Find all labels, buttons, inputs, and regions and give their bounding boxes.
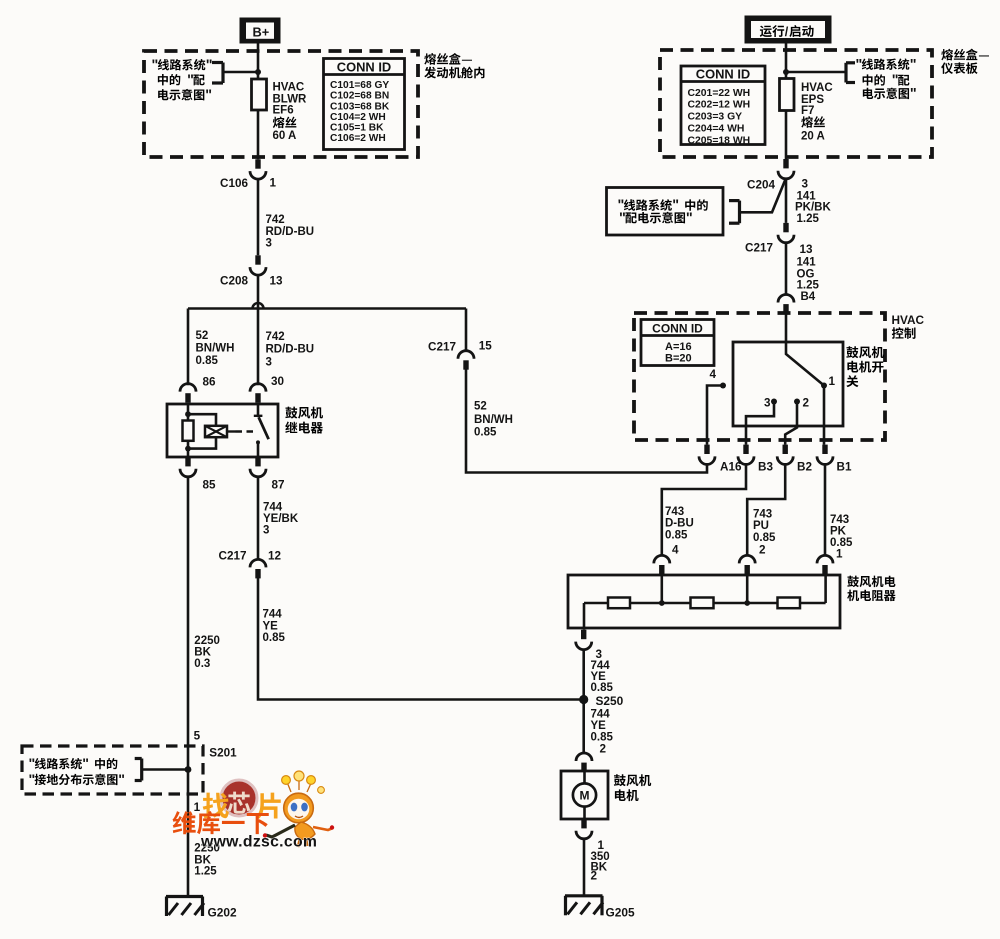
resistor tap pin 1 wire [824,575,827,603]
note text ground distribution [29,756,126,788]
svg-text:G202: G202 [208,905,237,919]
svg-text:CONN ID: CONN ID [337,60,391,75]
relay coil parallel branch lower [188,437,216,448]
svg-text:B3: B3 [758,460,773,473]
svg-text:BK: BK [194,647,211,659]
svg-text:": " [206,57,213,73]
svg-text:C217: C217 [428,340,456,353]
motor symbol M [573,783,596,806]
switch pin 4 wire to A16 [707,386,723,445]
svg-text:20 A: 20 A [801,130,825,142]
pin label 2 switch [803,396,810,409]
svg-text:B4: B4 [801,291,816,303]
svg-text:": " [118,772,125,788]
svg-text:3: 3 [263,524,269,536]
svg-text:C103=68 BK: C103=68 BK [330,101,390,112]
connector C106 [220,159,276,190]
wire label 744 YE 0.85 mid [263,609,286,645]
connector C217 pin 15 [428,339,492,369]
pin label 2 resistor [759,544,766,557]
wire 2250 BK 0.3 [187,476,190,897]
connector relay pin 87 [250,457,266,477]
svg-text:CONN ID: CONN ID [696,67,750,82]
resistor tap node 2 [744,600,750,606]
svg-text:EF6: EF6 [273,105,294,117]
svg-text:742: 742 [266,331,285,343]
svg-text:1: 1 [194,801,201,814]
wire 742 RD/D-BU 3 lower [257,309,260,386]
switch pin 2 node [794,399,800,405]
fusebox instrument panel dashed box [660,50,932,157]
svg-text:141: 141 [797,190,817,202]
connector B3 [738,445,773,474]
relay coil parallel branch upper [188,414,216,426]
svg-text:0.85: 0.85 [665,529,688,541]
CONN ID table left [324,59,405,150]
pin label 4 switch [710,368,717,381]
svg-text:52: 52 [196,330,209,342]
svg-text:744: 744 [591,708,611,720]
svg-text:HVAC: HVAC [273,82,305,94]
svg-text:C106: C106 [220,177,248,190]
relay contact blade [259,417,269,439]
svg-text:743: 743 [830,514,849,526]
switch pin 3 wire to B3 [746,402,774,445]
wire fuse to C106 [257,110,260,159]
wire label 742 RD/D-BU 3 upper [266,214,315,250]
pin label 30 [271,375,285,388]
note text power distribution right [856,57,917,102]
wire label 743 PU 0.85 [753,508,776,543]
wire RUN/START to fuse [785,44,788,80]
switch pin 3 node [771,399,777,405]
svg-text:C205=18 WH: C205=18 WH [688,135,751,146]
switch pin 4 node [720,383,726,389]
svg-text:3: 3 [266,357,272,369]
svg-text:13: 13 [800,243,814,256]
pin label 1 switch [829,375,836,388]
svg-text:141: 141 [797,256,817,268]
svg-text:1: 1 [836,548,843,561]
pin label 5 [194,729,201,742]
relay coil lower wire [187,441,190,457]
resistor element R3 [778,598,801,609]
relay label [285,407,323,434]
wire B+ to fuse [257,44,260,80]
svg-text:1: 1 [829,375,836,388]
svg-text:13: 13 [270,275,284,288]
svg-text:B+: B+ [253,24,270,39]
svg-text:": " [205,87,212,103]
wire label 743 D-BU 0.85 [665,506,694,541]
svg-text:M: M [580,789,590,803]
svg-text:B1: B1 [837,460,852,473]
svg-text:2: 2 [803,396,810,409]
wire 141 OG 1.25 B4 [785,242,788,295]
relay node upper [185,411,191,417]
svg-text:0.85: 0.85 [753,532,776,544]
relay contact tick [254,415,263,417]
wire 744 YE/BK 3 [257,476,260,560]
pin label 87 [272,478,285,491]
wire label 744 YE 0.85 2 lower [591,708,614,755]
resistor tap pin 4 wire [660,575,663,603]
power terminal B+ [240,18,281,44]
svg-text:86: 86 [203,375,217,388]
svg-text:0.85: 0.85 [591,682,614,694]
svg-text:C201=22 WH: C201=22 WH [688,88,751,99]
wire 141 PK/BK 1.25 [785,178,788,223]
connector resistor pin 2 [739,555,755,574]
relay coil feed wire [187,404,190,421]
connector C217 pin 13 [745,223,813,256]
svg-text:BN/WH: BN/WH [196,343,235,355]
svg-text:/: / [785,25,789,39]
svg-text:C104=2 WH: C104=2 WH [330,112,386,123]
svg-text:4: 4 [672,544,679,557]
svg-text:0.3: 0.3 [194,658,210,670]
fuse F7 HVAC EPS 20A [780,79,795,111]
svg-text:1.25: 1.25 [194,866,217,878]
svg-text:": " [82,756,89,772]
wire to right note bracket [786,71,846,74]
relay coil to contact link lead [227,430,236,432]
svg-text:YE/BK: YE/BK [263,513,299,525]
connector A16 [699,445,742,474]
power terminal RUN/START [745,16,832,44]
svg-text:PK: PK [830,526,847,538]
svg-text:743: 743 [753,508,772,520]
svg-text:12: 12 [268,550,282,563]
pin label 1 resistor [836,548,843,561]
svg-text:C202=12 WH: C202=12 WH [688,100,751,111]
wire C217-15 down across to A16 [466,369,707,473]
splice node S201 [185,766,192,773]
pin label 1 left [194,801,201,814]
svg-text:C102=68 BN: C102=68 BN [330,91,389,102]
splice label S201 [209,746,237,759]
svg-text:2250: 2250 [194,635,220,647]
svg-text:744: 744 [263,609,283,621]
wire branch 52 BN/WH left [187,309,190,386]
ground G202 [166,897,237,920]
note box power distribution C204 [607,188,724,236]
connector motor pin 1 [576,819,592,839]
HVAC control dashed box [634,313,885,440]
bus junction horizontal wire [188,307,466,310]
svg-text:PK/BK: PK/BK [795,202,831,214]
connector B2 [777,445,812,474]
svg-text:www.dzsc.com: www.dzsc.com [200,834,317,851]
wire label 141 OG 1.25 B4 [797,256,820,303]
svg-text:C217: C217 [745,242,773,255]
note text power distribution left [152,57,213,103]
connector C208 [220,255,283,287]
blower motor resistor box [568,575,840,628]
svg-text:B2: B2 [797,460,812,473]
svg-text:0.85: 0.85 [474,426,497,438]
splice node S250 [579,695,588,704]
resistor element R1 [608,598,630,609]
svg-text:15: 15 [479,339,493,352]
motor armature wire bottom [583,807,586,819]
svg-text:0.85: 0.85 [263,632,286,644]
svg-text:": " [910,86,917,102]
svg-text:": " [672,198,679,214]
svg-text:B=20: B=20 [665,352,692,364]
svg-text:4: 4 [710,368,717,381]
connector motor pin 2 [576,753,592,772]
svg-text:PU: PU [753,520,769,532]
connector relay pin 86 [180,384,196,403]
motor label [614,774,651,801]
wire label 1 350 BK 2 [591,839,610,883]
svg-text:": " [686,210,693,226]
wire label 52 BN/WH 0.85 left [196,330,235,367]
svg-text:3: 3 [802,177,809,190]
svg-text:G205: G205 [606,906,635,920]
relay suppression resistor [183,421,194,441]
CONN ID table small [641,320,714,366]
svg-text:2: 2 [759,544,766,557]
svg-text:60 A: 60 A [273,130,297,142]
resistor internal bus [584,602,826,605]
CONN ID table right [681,66,765,146]
svg-text:744: 744 [263,502,283,514]
connector relay pin 30 [250,384,266,403]
fuse label HVAC EPS F7 20A [801,82,833,142]
svg-text:3: 3 [764,396,771,409]
pin label 85 [203,478,217,491]
wire 743 D-BU 0.85 [662,464,746,557]
blower relay box [167,404,278,457]
relay node lower [185,446,191,452]
motor armature wire top [583,770,586,784]
wire label 744 YE/BK 3 [263,502,299,537]
svg-text:C204: C204 [747,179,775,192]
wire 744 YE 0.85 to S250 [258,577,580,699]
switch pin 1 wire to B1 [823,386,826,445]
wire 743 PU 0.85 [747,464,785,557]
svg-text:C101=68 GY: C101=68 GY [330,80,389,91]
svg-text:A=16: A=16 [665,341,692,353]
svg-text:1.25: 1.25 [797,280,820,292]
wire C208 to bus junction [257,274,260,308]
svg-text:": " [856,57,863,73]
svg-text:": " [892,73,899,89]
switch pin 1 node [821,383,827,389]
relay coil winding symbol [205,426,227,437]
resistor output drop [583,603,586,630]
wire 742 RD/D-BU 3 upper [257,178,260,255]
wire resistor to S250 [582,649,585,754]
svg-text:RD/D-BU: RD/D-BU [266,343,315,355]
HVAC control label [892,313,925,339]
wire label 742 RD/D-BU 3 lower [266,331,315,368]
ground G205 [565,896,635,920]
svg-text:HVAC: HVAC [801,82,833,94]
svg-text:": " [619,210,626,226]
wire label 3 744 YE 0.85 [591,648,614,694]
resistor tap pin 2 wire [746,575,749,603]
bus junction bump [253,303,264,309]
note bracket left fusebox [212,63,223,84]
svg-text:742: 742 [266,214,285,226]
svg-text:S250: S250 [596,694,624,708]
svg-text:2: 2 [600,743,607,756]
svg-text:": " [152,57,159,73]
splice label S250 [596,694,624,708]
svg-text:C208: C208 [220,275,248,288]
svg-text:": " [29,772,36,788]
svg-text:OG: OG [797,268,815,280]
wire branch to C217 pin 15 [465,309,468,352]
connector resistor output pin 3 [576,630,592,650]
svg-text:85: 85 [203,478,217,491]
resistor tap node 4 [659,600,665,606]
note bracket right fusebox [846,63,855,83]
note bracket ground distribution [135,759,142,781]
ground distribution dashed box [22,746,203,794]
wire label 743 PK 0.85 [830,514,853,549]
svg-text:C105=1 BK: C105=1 BK [330,123,384,134]
switch pin 2 wire to B2 [785,402,797,445]
svg-text:C217: C217 [219,550,247,563]
wire bracket to splice S201 [142,768,188,771]
wire label 2250 BK 1.25 [194,843,220,878]
svg-text:5: 5 [194,729,201,742]
svg-text:": " [187,72,194,88]
node junction distribution schematic left [255,69,261,75]
svg-text:3: 3 [266,238,272,250]
pin label 86 [203,375,217,388]
wire label 2250 BK 0.3 [194,635,220,670]
relay mechanical linkage dashed [236,430,258,432]
svg-text:87: 87 [272,478,285,491]
svg-text:YE: YE [591,720,607,732]
switch wiper wire from B4 [786,314,824,386]
wire motor to G205 [583,838,586,896]
connector C217 pin 12 [219,550,282,579]
svg-text:HVAC: HVAC [892,313,925,327]
wire C204 diagonal to note junction [740,178,786,212]
svg-text:C204=4 WH: C204=4 WH [688,124,745,135]
connector resistor pin 4 [654,555,670,574]
svg-text:D-BU: D-BU [665,518,694,530]
fusebox label engine compartment [424,53,484,78]
svg-text:1.25: 1.25 [797,213,820,225]
fuse EF6 HVAC BLWR 60A [252,79,267,110]
relay contact fixed wire [257,404,260,415]
svg-text:CONN ID: CONN ID [652,322,703,336]
svg-text:BN/WH: BN/WH [474,414,513,426]
svg-text:YE: YE [263,621,279,633]
fuse label HVAC BLWR EF6 60A [273,82,308,143]
note text power distribution C204 [618,198,708,227]
svg-text:743: 743 [665,506,684,518]
blower motor switch box [733,342,843,426]
connector B1 [817,445,852,474]
svg-text:": " [910,57,917,73]
switch label blower motor switch [846,346,884,387]
wire to left note bracket [223,71,258,74]
fusebox label instrument panel [941,49,989,74]
connector relay pin 85 [180,457,196,477]
wire fuse to C204 [785,110,788,159]
svg-text:RD/D-BU: RD/D-BU [266,226,315,238]
svg-text:": " [29,756,36,772]
svg-text:2: 2 [591,870,598,883]
connector B4 [778,295,794,314]
resistor element R2 [691,598,714,609]
svg-text:S201: S201 [209,746,237,759]
note bracket C204 [729,201,740,224]
resistor pack label [847,576,895,601]
svg-text:F7: F7 [801,105,814,117]
fusebox engine compartment dashed box [144,51,418,157]
connector resistor pin 1 [817,555,833,574]
wire label 141 PK/BK 1.25 [795,190,831,225]
svg-text:1: 1 [270,177,277,190]
pin label 3 switch [764,396,771,409]
svg-text:30: 30 [271,375,285,388]
watermark dzsc logo [173,771,335,851]
wire 743 PK 0.85 [824,464,827,557]
blower motor box [561,771,608,819]
svg-text:0.85: 0.85 [196,355,219,367]
svg-text:52: 52 [474,401,487,413]
pin label 4 resistor [672,544,679,557]
node junction distribution schematic right [783,69,789,75]
svg-text:C106=2 WH: C106=2 WH [330,133,386,144]
svg-text:C203=3 GY: C203=3 GY [688,112,743,123]
connector C204 [747,159,808,192]
wire label 52 BN/WH 0.85 right [474,401,513,439]
relay contact lower wire [256,440,260,457]
